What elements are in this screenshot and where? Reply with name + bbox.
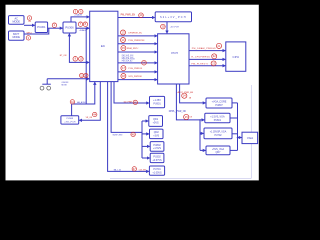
svg-text:DD_PWR: DD_PWR — [124, 102, 133, 104]
wire PU702 output — [232, 133, 238, 135]
svg-text:PM_PWR_EN: PM_PWR_EN — [121, 15, 136, 17]
svg-text:QD7: QD7 — [216, 151, 222, 154]
svg-text:PU303: PU303 — [66, 118, 73, 120]
svg-text:EC: EC — [101, 44, 106, 48]
wire SYS_PWROK — [118, 79, 157, 81]
svg-text:PU702: PU702 — [214, 135, 222, 137]
svg-text:+3V_PCH: +3V_PCH — [170, 27, 180, 29]
svg-text:PCH_PWRBTN#: PCH_PWRBTN# — [128, 40, 145, 42]
node ref 2 — [27, 16, 31, 20]
wire feeder to QD1 — [142, 120, 148, 122]
node ref 3 — [26, 36, 30, 40]
wire H_CPUPWRGD — [189, 58, 225, 60]
node ref 41 — [70, 100, 74, 104]
regulator PU301 — [35, 22, 47, 33]
node ref 23 — [211, 61, 216, 66]
node ref 16 — [142, 60, 147, 65]
wire PM_SLP bus — [118, 62, 157, 64]
svg-text:H_CPUPWRGD: H_CPUPWRGD — [191, 57, 210, 59]
node ref 45 — [133, 100, 137, 104]
wire feeder to QD2 — [142, 133, 149, 135]
box AC MODE — [9, 16, 25, 25]
wire VGA rail — [237, 103, 239, 150]
svg-text:CPU: CPU — [233, 55, 240, 59]
svg-text:PU306: PU306 — [65, 26, 74, 30]
node ref 46 — [131, 132, 135, 136]
CPU U3 — [226, 42, 246, 71]
wire PU807 output — [232, 102, 238, 104]
wire +3V_PCH to PCH — [166, 22, 168, 33]
node ref 12 — [84, 73, 88, 77]
node ref 11 — [80, 73, 84, 77]
box BATT MODE — [9, 31, 25, 40]
svg-text:+3VS: +3VS — [153, 135, 159, 138]
svg-text:RSM_RST#: RSM_RST# — [127, 48, 139, 50]
regulator PU801 +1.5VS_VGA — [205, 113, 230, 123]
node ref 6 — [79, 9, 83, 13]
svg-text:PU301: PU301 — [37, 25, 46, 29]
wire PU306 +3VALW to EC — [76, 27, 89, 29]
svg-text:D8: D8 — [190, 117, 192, 119]
svg-text:PM_PLTRST#: PM_PLTRST# — [191, 63, 209, 65]
svg-text:DPPL_PWR_OK: DPPL_PWR_OK — [169, 111, 187, 113]
svg-text:BT_ON: BT_ON — [60, 55, 67, 57]
node +3VALW junction — [86, 28, 87, 29]
wire VR_ON from EC to PU303 — [79, 82, 100, 121]
node ref 13 — [121, 30, 126, 35]
regulator PU802 +1.5VS — [150, 142, 164, 152]
node ref 4 — [52, 23, 56, 27]
svg-text:+1.5VS: +1.5VS — [153, 147, 161, 150]
node ref 25 — [184, 114, 189, 119]
regulator PU807 +VGA_CORE — [206, 98, 232, 108]
wire AVCC_PWR_EN PCH to PU807 — [180, 84, 206, 103]
EC U1 — [90, 11, 118, 81]
node ref 44 — [93, 112, 97, 116]
svg-text:+1.05VS: +1.05VS — [152, 172, 162, 175]
svg-text:BA_1.05: BA_1.05 — [114, 168, 121, 171]
red net labels — [27, 15, 217, 172]
regulator QD2 +3VS — [150, 129, 164, 139]
wire QD7 output — [230, 149, 238, 151]
svg-text:DPWROK_EC: DPWROK_EC — [128, 33, 142, 35]
wire +3VALW rail down — [85, 28, 87, 104]
regulator QD1 +5VS — [149, 116, 163, 127]
node VGA feeder junction — [199, 119, 200, 120]
page background — [0, 0, 267, 189]
regulator PU901 +1.35V — [150, 96, 165, 107]
node ref 20 — [161, 24, 166, 29]
wire VGA feeder rail — [199, 120, 201, 150]
wire PM_PLTRST# — [189, 65, 225, 67]
wire PU306 top +5VALW to EC — [71, 17, 89, 22]
regulator PU701 +1.05VS — [149, 166, 164, 175]
svg-text:HA_ACH#: HA_ACH# — [77, 101, 87, 104]
svg-text:PCH: PCH — [171, 51, 178, 55]
node ref 8 — [83, 22, 87, 26]
node VGA input junction — [237, 137, 239, 139]
wire HA_ACH to PU303 and EC — [72, 82, 95, 116]
wire EC rail to PU901 — [114, 82, 149, 103]
svg-text:VGA: VGA — [247, 136, 253, 140]
svg-text:1.05_EN: 1.05_EN — [139, 169, 147, 171]
svg-text:MODE: MODE — [12, 36, 20, 39]
svg-text:MONI: MONI — [62, 85, 68, 87]
svg-text:PU807: PU807 — [215, 104, 223, 107]
sheet border bottom-right — [110, 85, 251, 178]
svg-text:S2L+3V_PCH: S2L+3V_PCH — [160, 16, 187, 19]
svg-text:+0.67VS: +0.67VS — [152, 159, 162, 162]
node ref 15 — [121, 46, 126, 51]
node ref 5 — [73, 9, 77, 13]
wire PCH_PWRBTN# — [118, 43, 157, 45]
svg-text:SYS_PWROK: SYS_PWROK — [128, 76, 142, 78]
svg-text:PCH_PWROK: PCH_PWROK — [128, 68, 142, 70]
node ref 19 — [139, 13, 144, 18]
node ref 14 — [121, 38, 126, 43]
svg-text:+3VALW: +3VALW — [79, 29, 87, 32]
svg-text:SUSP_EN#: SUSP_EN# — [113, 134, 124, 136]
svg-text:PM_SLP_A#: PM_SLP_A# — [122, 60, 134, 63]
node ref 18 — [121, 74, 126, 79]
regulator PU306 — [63, 22, 76, 33]
regulator PU702 +1.35VSP_VGA — [204, 128, 232, 139]
svg-text:PM_DRAM_PWRGD: PM_DRAM_PWRGD — [192, 47, 216, 50]
svg-text:+5VS: +5VS — [153, 121, 159, 124]
wire RSM_RST# — [118, 51, 157, 53]
wire DPPL_PWR_OK PCH to PU801 — [176, 84, 204, 120]
node ref 17 — [121, 66, 126, 71]
red circle digits — [28, 10, 221, 171]
node ref 22 — [212, 54, 217, 59]
blue net labels — [62, 13, 187, 171]
blue box labels — [12, 16, 253, 175]
node ref 7 — [78, 22, 82, 26]
wire feeder to PU702 — [200, 132, 203, 134]
node ref 24 — [182, 93, 187, 98]
wire EC rail to feeder — [111, 82, 142, 133]
wire sheet border — [110, 85, 251, 178]
svg-text:PU801: PU801 — [214, 119, 222, 122]
regulator PU303 — [61, 116, 79, 124]
svg-text:WPC#: WPC# — [27, 33, 33, 35]
regulator QD7 +5VS_VGA — [206, 146, 230, 155]
switch SW1 bar — [42, 83, 51, 85]
node ref 10 — [79, 57, 84, 62]
wire DPWROK_EC — [118, 35, 157, 37]
wire PM_PWR_EN EC to S2L — [118, 17, 155, 19]
wire feeder to PU802 — [142, 145, 150, 147]
wire power button to EC — [47, 79, 89, 84]
svg-text:+3VL_PCH: +3VL_PCH — [64, 121, 75, 123]
VGA U4 — [242, 132, 258, 143]
wire BT_ON from EC to PU306 — [69, 34, 89, 63]
wire PCH_PWROK — [118, 71, 157, 73]
node ref 47 — [132, 167, 136, 171]
wire PU801 output — [230, 117, 238, 119]
svg-text:+1.35VSP_VGA: +1.35VSP_VGA — [210, 130, 227, 133]
svg-text:VR_ON: VR_ON — [86, 117, 93, 119]
wire PU301 output to PU306 — [48, 27, 63, 29]
wire AC adapter to PU301 — [24, 24, 35, 26]
regulator S2L+3V_PCH — [155, 12, 191, 22]
svg-text:PU901: PU901 — [153, 103, 161, 106]
wire PM_DRAM_PWRGD — [189, 50, 225, 52]
node ref 9 — [73, 57, 78, 62]
regulator PU302 +0.67VS — [150, 153, 164, 162]
wire feeder to PU302 — [142, 157, 150, 159]
svg-text:MODE: MODE — [12, 20, 20, 23]
wire into VGA — [238, 137, 242, 139]
switch SW1 contacts — [40, 86, 44, 90]
PCH U2 — [158, 34, 189, 84]
wire feeder rail — [141, 121, 143, 158]
wire feeder to QD7 — [200, 149, 205, 151]
node ref 21 — [216, 43, 221, 48]
red reference circles — [26, 9, 221, 171]
wire battery to B+ rail — [24, 28, 49, 34]
wire EC rail to PU701 — [108, 82, 149, 172]
